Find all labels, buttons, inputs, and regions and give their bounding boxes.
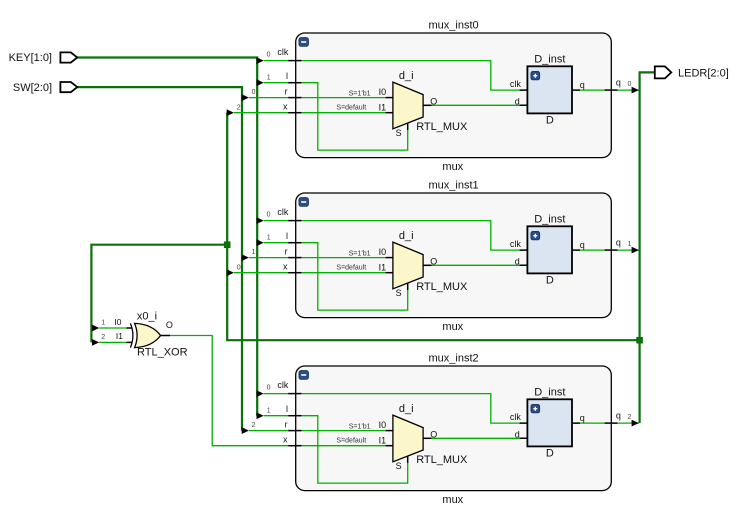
svg-text:O: O <box>430 430 437 440</box>
svg-text:q: q <box>616 411 621 421</box>
svg-text:clk: clk <box>277 380 288 390</box>
svg-text:r: r <box>285 87 288 97</box>
svg-text:q: q <box>580 413 585 423</box>
svg-text:2: 2 <box>252 422 256 429</box>
svg-text:q: q <box>580 80 585 90</box>
svg-text:1: 1 <box>628 241 632 248</box>
svg-text:clk: clk <box>510 412 521 422</box>
svg-text:d_i: d_i <box>399 70 414 82</box>
svg-text:l: l <box>286 71 288 81</box>
svg-text:D: D <box>546 275 554 287</box>
svg-text:S: S <box>396 461 402 471</box>
svg-text:S=1'b1: S=1'b1 <box>349 90 371 97</box>
svg-text:1: 1 <box>267 234 271 241</box>
svg-text:clk: clk <box>277 207 288 217</box>
svg-text:1: 1 <box>267 74 271 81</box>
svg-text:I0: I0 <box>379 420 387 430</box>
svg-text:clk: clk <box>277 47 288 57</box>
svg-text:mux: mux <box>442 494 463 506</box>
svg-text:D_inst: D_inst <box>534 214 565 226</box>
svg-text:x: x <box>283 435 288 445</box>
svg-text:O: O <box>430 257 437 267</box>
svg-text:SW[2:0]: SW[2:0] <box>13 82 52 94</box>
svg-text:0: 0 <box>628 81 632 88</box>
svg-text:1: 1 <box>252 249 256 256</box>
svg-text:S=1'b1: S=1'b1 <box>349 250 371 257</box>
svg-text:O: O <box>430 97 437 107</box>
svg-text:I1: I1 <box>116 331 123 341</box>
svg-text:I1: I1 <box>379 102 387 112</box>
svg-text:0: 0 <box>267 384 271 391</box>
svg-text:d: d <box>515 429 520 439</box>
svg-text:d: d <box>515 256 520 266</box>
svg-text:D: D <box>546 115 554 127</box>
svg-text:S=default: S=default <box>336 437 366 444</box>
svg-text:0: 0 <box>237 264 241 271</box>
svg-text:D_inst: D_inst <box>534 54 565 66</box>
svg-text:r: r <box>285 420 288 430</box>
svg-text:clk: clk <box>510 239 521 249</box>
svg-text:mux_inst2: mux_inst2 <box>429 352 479 364</box>
svg-text:l: l <box>286 404 288 414</box>
svg-text:S=1'b1: S=1'b1 <box>349 423 371 430</box>
svg-text:0: 0 <box>267 211 271 218</box>
svg-text:1: 1 <box>101 320 105 327</box>
svg-text:2: 2 <box>628 414 632 421</box>
svg-text:KEY[1:0]: KEY[1:0] <box>9 52 52 64</box>
svg-text:clk: clk <box>510 79 521 89</box>
svg-text:d_i: d_i <box>399 403 414 415</box>
svg-text:S: S <box>396 288 402 298</box>
svg-text:D_inst: D_inst <box>534 387 565 399</box>
svg-text:mux: mux <box>442 161 463 173</box>
svg-text:I1: I1 <box>379 262 387 272</box>
svg-text:S=default: S=default <box>336 264 366 271</box>
svg-text:RTL_MUX: RTL_MUX <box>416 281 468 293</box>
svg-text:mux: mux <box>442 321 463 333</box>
svg-text:LEDR[2:0]: LEDR[2:0] <box>678 67 729 79</box>
svg-text:I0: I0 <box>379 87 387 97</box>
svg-text:0: 0 <box>267 51 271 58</box>
svg-text:x0_i: x0_i <box>137 310 157 322</box>
svg-text:mux_inst1: mux_inst1 <box>429 179 479 191</box>
svg-text:D: D <box>546 448 554 460</box>
svg-text:d_i: d_i <box>399 230 414 242</box>
svg-text:RTL_MUX: RTL_MUX <box>416 121 468 133</box>
svg-text:q: q <box>580 240 585 250</box>
svg-text:x: x <box>283 102 288 112</box>
svg-text:RTL_XOR: RTL_XOR <box>137 347 188 359</box>
svg-text:1: 1 <box>267 407 271 414</box>
svg-text:S=default: S=default <box>336 104 366 111</box>
svg-text:2: 2 <box>237 104 241 111</box>
svg-text:l: l <box>286 231 288 241</box>
svg-text:mux_inst0: mux_inst0 <box>429 19 479 31</box>
svg-text:I0: I0 <box>114 317 121 327</box>
svg-text:0: 0 <box>252 89 256 96</box>
svg-text:RTL_MUX: RTL_MUX <box>416 454 468 466</box>
svg-text:r: r <box>285 247 288 257</box>
svg-text:O: O <box>166 320 173 330</box>
svg-text:q: q <box>616 238 621 248</box>
svg-text:S: S <box>396 128 402 138</box>
svg-text:x: x <box>283 262 288 272</box>
svg-text:2: 2 <box>101 334 105 341</box>
svg-text:I1: I1 <box>379 435 387 445</box>
svg-text:d: d <box>515 96 520 106</box>
svg-text:I0: I0 <box>379 247 387 257</box>
svg-text:q: q <box>616 78 621 88</box>
